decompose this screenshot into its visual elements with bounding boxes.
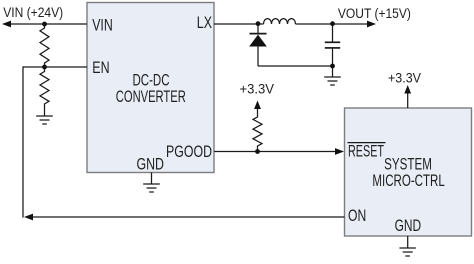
- svg-text:+3.3V: +3.3V: [388, 70, 421, 85]
- svg-text:EN: EN: [92, 59, 109, 77]
- svg-text:CONVERTER: CONVERTER: [116, 88, 186, 106]
- svg-text:RESET: RESET: [348, 143, 384, 161]
- svg-text:MICRO-CTRL: MICRO-CTRL: [372, 172, 444, 190]
- svg-text:LX: LX: [197, 14, 212, 32]
- svg-text:VOUT (+15V): VOUT (+15V): [338, 6, 411, 21]
- svg-text:+3.3V: +3.3V: [240, 82, 275, 97]
- svg-text:DC-DC: DC-DC: [133, 72, 170, 90]
- svg-text:VIN: VIN: [92, 16, 113, 34]
- svg-text:ON: ON: [348, 207, 366, 225]
- svg-text:VIN (+24V): VIN (+24V): [3, 5, 63, 20]
- svg-text:GND: GND: [137, 156, 165, 174]
- svg-text:GND: GND: [395, 217, 422, 235]
- svg-text:SYSTEM: SYSTEM: [384, 155, 432, 173]
- svg-text:PGOOD: PGOOD: [166, 143, 212, 161]
